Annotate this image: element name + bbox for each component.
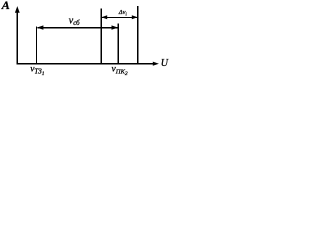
svg-text:vсб: vсб: [69, 15, 80, 27]
witness line at x=137.8: [137, 6, 139, 64]
dimension arrow shaft v_sb: [38, 27, 118, 29]
svg-text:Δvi: Δvi: [118, 9, 128, 17]
svg-text:U: U: [161, 58, 169, 69]
witness line at x=101.3: [100, 9, 102, 64]
Δv_i left arrowhead: [101, 15, 107, 19]
witness line at x=118.3 (v_PK2 boundary): [117, 23, 119, 64]
witness line at x=36.5 (v_TZ1 boundary): [36, 26, 38, 64]
axis U (horizontal): [17, 63, 155, 65]
axis U arrowhead: [153, 62, 159, 66]
dimension arrow shaft Δv_i: [102, 16, 137, 18]
Δv_i right arrowhead: [132, 15, 138, 19]
svg-text:vТЗ1: vТЗ1: [30, 65, 45, 78]
v_sb left arrowhead: [37, 25, 44, 29]
axis A arrowhead: [15, 6, 20, 13]
axis A (vertical): [16, 10, 18, 64]
v_sb right arrowhead: [112, 25, 119, 29]
svg-text:vПК2: vПК2: [112, 65, 128, 78]
svg-text:A: A: [1, 0, 10, 12]
